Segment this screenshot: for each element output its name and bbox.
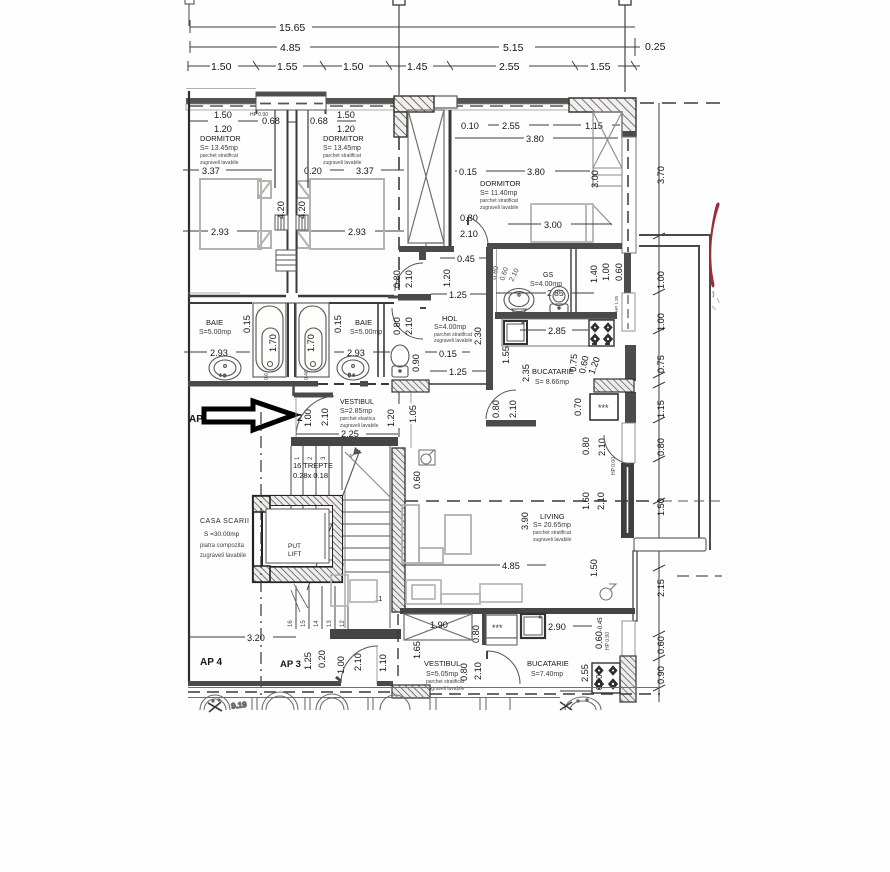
stair right wall hatched xyxy=(392,448,405,612)
living room xyxy=(331,435,725,606)
door arc hol to gs room xyxy=(392,308,423,339)
svg-text:VESTIBUL: VESTIBUL xyxy=(424,659,460,668)
svg-text:S= 8.66mp: S= 8.66mp xyxy=(535,379,569,386)
big black arrow xyxy=(204,401,294,430)
svg-text:zugraveli lavabile: zugraveli lavabile xyxy=(200,553,247,559)
sink kitchen xyxy=(504,321,527,344)
dash-dot axis through lift xyxy=(260,412,262,696)
svg-text:2.35: 2.35 xyxy=(521,364,531,382)
svg-text:S= 13.45mp: S= 13.45mp xyxy=(200,145,238,152)
dims 0.15 1.25 lower hol xyxy=(425,351,437,353)
svg-text:1.65: 1.65 xyxy=(412,641,422,659)
dim 2.25 xyxy=(296,433,339,435)
top exterior wall xyxy=(186,89,636,138)
svg-text:0.68: 0.68 xyxy=(310,116,328,126)
svg-text:2.85: 2.85 xyxy=(548,326,566,336)
svg-text:1.00: 1.00 xyxy=(656,313,666,331)
svg-text:zugraveli lavabile: zugraveli lavabile xyxy=(434,338,473,344)
svg-text:9.19: 9.19 xyxy=(231,700,248,711)
lower flight risers xyxy=(296,584,348,629)
svg-text:2.30: 2.30 xyxy=(473,327,483,345)
bed room2 xyxy=(297,179,384,249)
svg-text:S=5.05mp: S=5.05mp xyxy=(426,671,458,678)
svg-text:0.60: 0.60 xyxy=(656,636,666,654)
svg-text:1.15: 1.15 xyxy=(656,400,666,418)
svg-text:PUT: PUT xyxy=(288,543,301,550)
svg-text:0.60: 0.60 xyxy=(412,471,422,489)
dashed tie top right xyxy=(640,102,725,104)
stove ap3 xyxy=(592,663,620,693)
svg-text:2.15: 2.15 xyxy=(656,579,666,597)
wall bedrooms/bathrooms xyxy=(188,293,394,303)
wall between tubs xyxy=(287,303,289,377)
svg-text:2.55: 2.55 xyxy=(502,121,520,131)
dormitor2 labels xyxy=(304,110,404,237)
svg-text:***: *** xyxy=(492,623,503,633)
svg-text:4.20: 4.20 xyxy=(297,201,307,219)
svg-text:4.85: 4.85 xyxy=(280,42,301,54)
svg-text:16 TREPTE: 16 TREPTE xyxy=(293,461,333,470)
GS room xyxy=(496,249,624,313)
svg-text:5.15: 5.15 xyxy=(503,42,524,54)
svg-text:1.00: 1.00 xyxy=(336,656,346,674)
furniture row bottom living xyxy=(331,575,522,606)
svg-text:1.25: 1.25 xyxy=(303,652,313,670)
svg-text:3.80: 3.80 xyxy=(526,134,544,144)
counter ap3 xyxy=(482,613,486,645)
svg-text:4.85: 4.85 xyxy=(502,561,520,571)
window top wall 2 xyxy=(432,96,457,108)
svg-text:DORMITOR: DORMITOR xyxy=(200,134,241,143)
svg-text:0.45: 0.45 xyxy=(457,254,475,264)
dim line 15.65 xyxy=(190,20,635,33)
svg-text:0.15: 0.15 xyxy=(439,349,457,359)
svg-text:BAIE: BAIE xyxy=(206,318,223,327)
hatched divider top block xyxy=(394,96,434,112)
svg-text:parchet elastica: parchet elastica xyxy=(340,416,375,422)
svg-text:S= 13.45mp: S= 13.45mp xyxy=(323,145,361,152)
shaft ladder symbols in partition xyxy=(275,215,308,271)
dim 1.25 hol xyxy=(431,293,447,295)
svg-text:0.68: 0.68 xyxy=(262,116,280,126)
svg-text:3.80: 3.80 xyxy=(527,167,545,177)
bucatarie ap3 door arc xyxy=(487,651,520,684)
svg-text:S=5.00mp: S=5.00mp xyxy=(199,329,231,336)
svg-text:2.55: 2.55 xyxy=(580,664,590,682)
svg-text:2.10: 2.10 xyxy=(460,229,478,239)
svg-text:HOL: HOL xyxy=(442,314,457,323)
svg-text:15: 15 xyxy=(301,620,307,627)
svg-text:parchet stratificat: parchet stratificat xyxy=(323,153,362,159)
svg-text:1.20: 1.20 xyxy=(386,409,396,427)
wall living / ap3 kitchen xyxy=(400,608,635,614)
red pen mark xyxy=(709,202,719,287)
apartment divider dashed line xyxy=(398,137,400,292)
svg-text:zugraveli lavabile: zugraveli lavabile xyxy=(480,205,519,211)
svg-text:0.80: 0.80 xyxy=(656,438,666,456)
svg-text:0.20: 0.20 xyxy=(317,650,327,668)
svg-text:0.75: 0.75 xyxy=(656,355,666,373)
toilet hol xyxy=(391,345,409,377)
cropped fixtures bottom row xyxy=(188,688,658,713)
wall dormitor3 left xyxy=(449,110,452,247)
svg-text:1.10: 1.10 xyxy=(378,654,388,672)
sofa xyxy=(402,505,471,563)
svg-text:1.50: 1.50 xyxy=(656,498,666,516)
svg-text:16: 16 xyxy=(288,620,294,627)
rotated dim 4.20 room1 xyxy=(276,201,307,219)
door arc hol to baie2 xyxy=(395,263,423,291)
svg-text:zugraveli lavabile: zugraveli lavabile xyxy=(426,686,465,692)
right dimension chain xyxy=(653,103,666,702)
svg-text:2.90: 2.90 xyxy=(548,622,566,632)
wardrobe X ap3 xyxy=(404,614,472,640)
right exterior wall with windows xyxy=(620,137,637,702)
svg-text:0.10: 0.10 xyxy=(461,121,479,131)
svg-text:0.80: 0.80 xyxy=(581,437,591,455)
svg-text:3.37: 3.37 xyxy=(356,166,374,176)
kitchen AP2 xyxy=(486,319,634,427)
marker symbol near stairs xyxy=(419,450,435,465)
svg-text:1.70: 1.70 xyxy=(268,334,278,352)
AP3 kitchen row xyxy=(404,613,611,650)
svg-text:1.25: 1.25 xyxy=(449,367,467,377)
bottom wall xyxy=(188,677,660,698)
wall piece hol left xyxy=(398,294,431,301)
svg-text:1.60: 1.60 xyxy=(581,492,591,510)
svg-text:0.20: 0.20 xyxy=(304,166,322,176)
upper flight risers xyxy=(291,446,342,517)
svg-text:2.93: 2.93 xyxy=(211,227,229,237)
svg-text:0.60: 0.60 xyxy=(614,263,624,281)
sink ap3 xyxy=(521,614,545,638)
svg-text:13: 13 xyxy=(327,620,333,627)
svg-text:1.90: 1.90 xyxy=(430,620,448,630)
wall bath/corridor with hatch xyxy=(188,381,318,387)
stair bottom wall xyxy=(330,629,401,639)
svg-text:1.20: 1.20 xyxy=(214,124,232,134)
dim 3.20 xyxy=(188,636,245,638)
lift shaft walls xyxy=(253,496,342,582)
svg-text:0.15: 0.15 xyxy=(459,167,477,177)
svg-text:0.80: 0.80 xyxy=(392,270,402,288)
L wall step at hol top xyxy=(399,246,454,260)
dim 4.85 xyxy=(402,564,500,566)
svg-text:3.00: 3.00 xyxy=(544,220,562,230)
svg-text:1.20: 1.20 xyxy=(442,269,452,287)
svg-text:S=7.40mp: S=7.40mp xyxy=(531,671,563,678)
svg-text:4.20: 4.20 xyxy=(276,201,286,219)
dim line 4.85 / 5.15 / 0.25 xyxy=(190,38,640,56)
svg-text:1.50: 1.50 xyxy=(337,110,355,120)
fridge xyxy=(590,394,618,420)
left exterior wall xyxy=(188,91,190,682)
svg-text:1.50: 1.50 xyxy=(214,110,232,120)
ap3 entry door xyxy=(341,646,378,683)
svg-text:0 +: 0 + xyxy=(348,373,355,379)
svg-text:zugraveli lavabile: zugraveli lavabile xyxy=(533,537,572,543)
svg-text:0.6: 0.6 xyxy=(264,373,270,380)
svg-text:1.20: 1.20 xyxy=(337,124,355,134)
svg-text:DORMITOR: DORMITOR xyxy=(480,179,521,188)
dim 3.00 bed3 xyxy=(508,223,541,225)
svg-text:1.00: 1.00 xyxy=(656,271,666,289)
sink baie2 xyxy=(337,356,369,380)
sink baie1 xyxy=(209,356,241,380)
svg-text:2.55: 2.55 xyxy=(499,61,520,73)
lift cab xyxy=(266,509,329,563)
svg-text:1.50: 1.50 xyxy=(589,559,599,577)
bed dormitor3 xyxy=(531,204,593,242)
svg-text:3.20: 3.20 xyxy=(247,633,265,643)
svg-text:3.37: 3.37 xyxy=(202,166,220,176)
marker circle symbol living xyxy=(600,584,616,600)
wall below dormitor3 xyxy=(487,243,622,249)
svg-text:VESTIBUL: VESTIBUL xyxy=(340,399,374,406)
svg-text:HP 0.00: HP 0.00 xyxy=(611,457,617,475)
svg-text:1.40: 1.40 xyxy=(589,265,599,283)
svg-text:S=4.00mp: S=4.00mp xyxy=(434,324,466,331)
baie2 right wall xyxy=(377,303,379,377)
svg-text:AP 3: AP 3 xyxy=(280,659,301,670)
svg-text:BAIE: BAIE xyxy=(355,318,372,327)
stair top wall xyxy=(291,437,398,446)
wall below kitchen door xyxy=(486,420,536,427)
svg-text:2.10: 2.10 xyxy=(404,270,414,288)
svg-text:0.90: 0.90 xyxy=(411,354,421,372)
svg-text:1.70: 1.70 xyxy=(306,334,316,352)
svg-text:0.90: 0.90 xyxy=(656,666,666,684)
svg-text:1.55: 1.55 xyxy=(590,61,611,73)
gs sink xyxy=(504,289,534,314)
svg-text:2.10: 2.10 xyxy=(404,317,414,335)
svg-text:HP 0.90: HP 0.90 xyxy=(605,632,611,650)
svg-text:S= 11.40mp: S= 11.40mp xyxy=(480,190,518,197)
svg-text:0.80: 0.80 xyxy=(491,400,501,418)
dim line row3 1.50 1.55 1.50 1.45 2.55 1.55 xyxy=(188,61,640,71)
svg-text:0.80: 0.80 xyxy=(471,625,481,643)
svg-text:parchet stratificat: parchet stratificat xyxy=(533,530,572,536)
HOL area xyxy=(388,247,497,390)
svg-text:14: 14 xyxy=(314,620,320,627)
svg-text:12: 12 xyxy=(340,620,346,627)
bed room1 xyxy=(200,179,271,249)
svg-text:S=2.85mp: S=2.85mp xyxy=(340,408,372,415)
svg-text:15.65: 15.65 xyxy=(279,22,305,34)
svg-text:1.00: 1.00 xyxy=(601,263,611,281)
axis marker box C xyxy=(619,0,631,92)
svg-text:GS: GS xyxy=(543,272,553,279)
svg-text:1.50: 1.50 xyxy=(343,61,364,73)
stair direction diagonal xyxy=(307,450,360,590)
svg-text:2.10: 2.10 xyxy=(508,400,518,418)
svg-text:HP 1.35: HP 1.35 xyxy=(614,295,619,312)
wardrobe dormitor3 with shelves xyxy=(593,112,622,225)
tall wardrobe AP2 with X xyxy=(408,110,444,250)
svg-text:2.10: 2.10 xyxy=(473,662,483,680)
kitchen door arc xyxy=(486,390,516,419)
stove kitchen xyxy=(589,320,614,346)
corridor jog wall xyxy=(292,386,295,396)
svg-text:+ o: + o xyxy=(219,373,226,379)
vestibul ap2 door arc xyxy=(296,396,334,437)
svg-text:LIVING: LIVING xyxy=(540,512,565,521)
svg-text:S= 20.65mp: S= 20.65mp xyxy=(533,522,571,529)
svg-text:0.15: 0.15 xyxy=(242,315,252,333)
counter row xyxy=(502,319,614,346)
svg-text:2.93: 2.93 xyxy=(348,227,366,237)
axis marker box A xyxy=(185,0,194,26)
svg-text:LIFT: LIFT xyxy=(288,551,301,558)
wall gs bottom segment xyxy=(429,383,487,385)
bathtub baie1 xyxy=(253,303,286,377)
dormitor1 labels xyxy=(183,110,296,237)
terrace outline xyxy=(634,235,710,551)
svg-text:S =30.00mp: S =30.00mp xyxy=(204,531,240,538)
svg-text:1.55: 1.55 xyxy=(277,61,298,73)
svg-text:1.50: 1.50 xyxy=(211,61,232,73)
svg-text:***: *** xyxy=(598,403,609,413)
svg-text:DORMITOR: DORMITOR xyxy=(323,134,364,143)
svg-text:3.70: 3.70 xyxy=(656,166,666,184)
hatched top-right corner xyxy=(569,98,636,137)
svg-text:2.10: 2.10 xyxy=(596,492,606,510)
inner stair wall line xyxy=(344,490,346,628)
svg-text:0.15: 0.15 xyxy=(333,315,343,333)
svg-text:3.90: 3.90 xyxy=(520,512,530,530)
svg-text:0.28x 0.18: 0.28x 0.18 xyxy=(293,471,328,480)
svg-text:1.05: 1.05 xyxy=(408,405,418,423)
gs right wall xyxy=(570,249,572,313)
svg-text:BUCATARIE: BUCATARIE xyxy=(527,659,569,668)
svg-text:3.00: 3.00 xyxy=(590,170,600,188)
hatch block kitchen right xyxy=(594,379,634,392)
svg-text:1.55: 1.55 xyxy=(501,346,511,364)
svg-text:CASA SCARII: CASA SCARII xyxy=(200,518,249,525)
window top wall 1 xyxy=(256,92,326,110)
svg-text:0.80: 0.80 xyxy=(459,663,469,681)
svg-text:0.70: 0.70 xyxy=(573,398,583,416)
svg-text:0.25: 0.25 xyxy=(645,41,666,53)
lift xyxy=(253,496,342,582)
AP3 vestibul / bucatarie xyxy=(188,633,620,693)
svg-text:0.80: 0.80 xyxy=(392,317,402,335)
svg-text:parchet stratificat: parchet stratificat xyxy=(480,198,519,204)
svg-text:2.10: 2.10 xyxy=(597,438,607,456)
ap boundary dashed xyxy=(405,500,660,502)
double partition wall between dormitor1/2 xyxy=(275,110,308,293)
svg-text:AP 4: AP 4 xyxy=(200,657,222,668)
wall hol/kitchen vertical xyxy=(486,247,493,390)
svg-text:1.45: 1.45 xyxy=(407,61,428,73)
gs wc xyxy=(550,287,569,314)
svg-text:1.25: 1.25 xyxy=(449,290,467,300)
svg-text:piatra compozita: piatra compozita xyxy=(200,543,245,549)
svg-text:parchet stratificat: parchet stratificat xyxy=(200,153,239,159)
axis marker box B xyxy=(393,0,405,95)
svg-text:2.10: 2.10 xyxy=(320,408,330,426)
wall GS/kitchen xyxy=(495,312,617,319)
svg-text:2.10: 2.10 xyxy=(353,653,363,671)
svg-text:0.46: 0.46 xyxy=(304,370,310,380)
dim 2.85 kitchen xyxy=(520,329,546,331)
dormitor3 mid dims xyxy=(455,170,457,172)
treads middle flight xyxy=(302,500,390,572)
stairwell xyxy=(288,437,405,682)
bathtub baie2 xyxy=(296,303,329,377)
